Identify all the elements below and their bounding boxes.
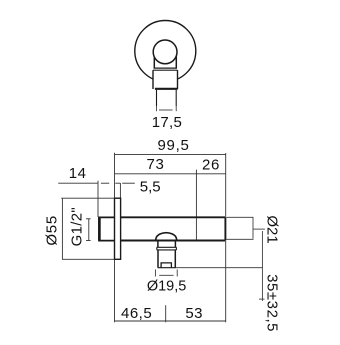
Ø19,5 extension tick right: [176, 269, 178, 276]
cap inner circle: [153, 40, 177, 64]
wall face extension line: [114, 153, 116, 198]
Ø21 top extension line: [226, 216, 253, 218]
tube body (plan) white: [154, 52, 176, 68]
extension line 17,5 right: [175, 106, 177, 111]
Ø55 top extension line: [61, 197, 114, 199]
svg-text:G1/2": G1/2": [69, 207, 86, 246]
ring right edge: [175, 247, 177, 250]
svg-text:46,5: 46,5: [121, 305, 152, 322]
Ø19,5 dimension line: [159, 274, 173, 276]
Ø55 dimension line: [61, 199, 63, 260]
tube axis reference line: [253, 228, 265, 230]
svg-text:99,5: 99,5: [158, 137, 190, 154]
svg-text:73: 73: [147, 156, 165, 173]
dimension line 14: [58, 182, 98, 184]
35÷32,5 dimension line: [261, 231, 263, 301]
collar white body: [153, 70, 178, 89]
tube bottom outline: [121, 240, 226, 242]
tube body (plan) right edge: [175, 52, 177, 68]
flange outer circle: [135, 21, 196, 82]
dimension line 99,5: [115, 153, 226, 155]
extension line plate front (5,5): [119, 183, 121, 198]
svg-text:Ø21: Ø21: [264, 215, 281, 243]
extension line holder bottom to right: [176, 267, 263, 269]
svg-text:26: 26: [202, 156, 220, 173]
extension tick outlet centre: [165, 305, 167, 322]
extension line 17,5 left: [156, 106, 158, 111]
holder inner square: [161, 263, 171, 268]
flange plate: [115, 198, 121, 259]
Ø21 dimension line: [252, 218, 254, 239]
stem right edge: [175, 90, 177, 106]
outlet neck right: [174, 241, 176, 248]
dimension line 73 / 26: [115, 173, 226, 175]
ring lower line: [157, 249, 177, 251]
holder body left: [157, 250, 159, 268]
holder body right: [174, 250, 176, 268]
dimension dash 5,5 span: [115, 182, 120, 184]
tube bottom joint line: [154, 67, 177, 69]
stem left edge: [156, 90, 158, 106]
dome cap of outlet: [156, 233, 177, 241]
svg-text:17,5: 17,5: [152, 114, 182, 131]
extension line at 73/26 split through tube: [195, 170, 197, 241]
dimension dash right of 5,5: [122, 182, 135, 184]
extension line stub rear (14): [97, 181, 99, 217]
G1/2 indicator top tick: [86, 218, 91, 220]
svg-text:35±32,5: 35±32,5: [263, 274, 280, 332]
svg-text:5,5: 5,5: [140, 179, 161, 196]
Ø55 bottom extension line: [62, 258, 114, 260]
tube end cap: [224, 217, 226, 240]
svg-text:Ø55: Ø55: [44, 215, 61, 246]
stub thick end cap: [98, 217, 101, 240]
tube top outline: [121, 216, 226, 218]
Ø19,5 extension tick left: [154, 269, 156, 276]
collar right edge: [177, 70, 179, 89]
G1/2 indicator bottom tick: [86, 240, 91, 242]
collar left edge: [152, 70, 154, 89]
Ø21 bottom extension line: [226, 238, 253, 240]
ring upper line: [157, 246, 177, 248]
collar bottom thick edge: [155, 88, 178, 90]
svg-text:53: 53: [185, 305, 203, 322]
collar top line: [153, 69, 178, 71]
35÷32,5 bottom tick: [259, 298, 265, 300]
holder bottom: [158, 267, 176, 269]
ring left edge: [156, 247, 158, 250]
svg-text:Ø19,5: Ø19,5: [147, 278, 187, 294]
bottom dimension line 46,5 / 53: [115, 320, 226, 322]
stub (wall connection) outline: [99, 217, 115, 240]
right end extension line: [225, 153, 227, 217]
tube body (plan) left edge: [153, 52, 155, 68]
dimension dash between 14 and 5,5: [101, 182, 109, 184]
outlet neck left: [157, 241, 159, 248]
G1/2 thread indicator line: [88, 219, 90, 240]
dimension line 17,5: [159, 109, 173, 111]
svg-text:14: 14: [69, 165, 87, 182]
